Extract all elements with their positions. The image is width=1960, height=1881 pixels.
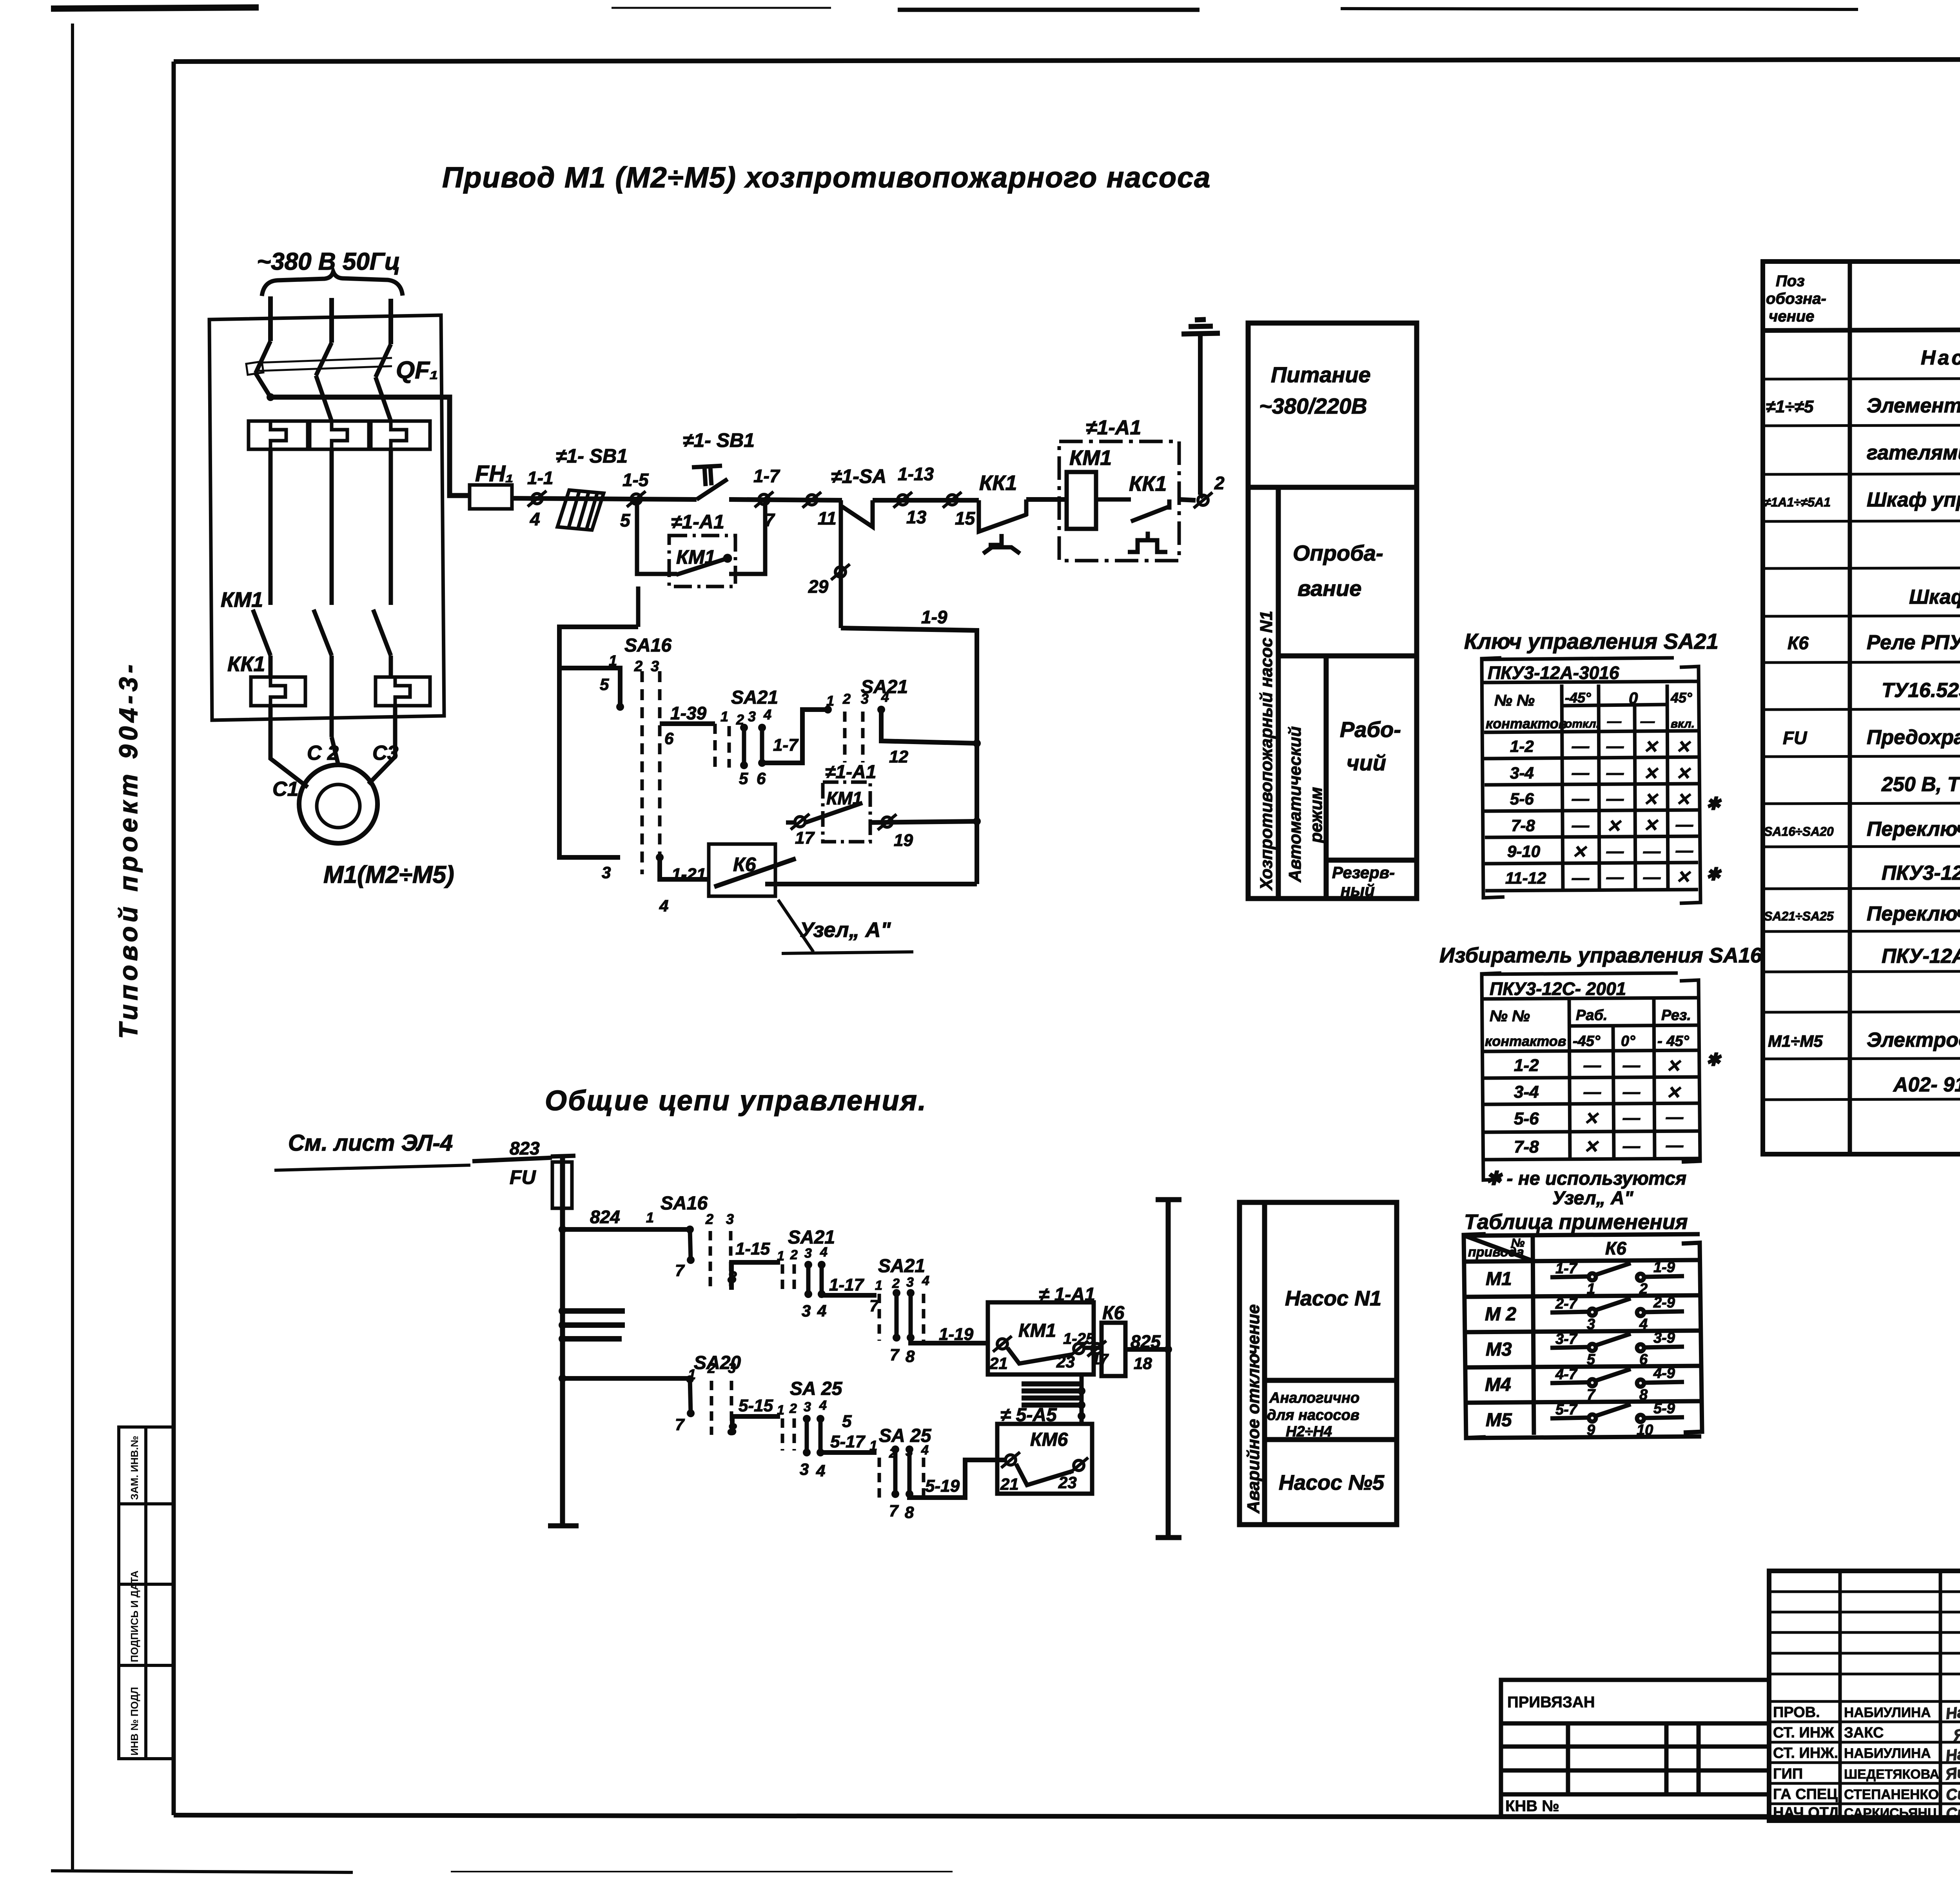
svg-text:—: — (1643, 842, 1661, 861)
svg-text:ЗАКС: ЗАКС (1844, 1725, 1884, 1741)
svg-text:5-19: 5-19 (925, 1476, 960, 1496)
svg-text:1-15: 1-15 (735, 1239, 770, 1258)
svg-text:2: 2 (842, 691, 851, 707)
svg-text:SА21: SА21 (788, 1227, 835, 1248)
svg-text:SА16÷SА20: SА16÷SА20 (1764, 824, 1834, 839)
svg-text:Рабо-: Рабо- (1340, 717, 1401, 742)
svg-text:—: — (1640, 713, 1655, 729)
svg-text:—: — (1606, 789, 1624, 808)
svg-text:4: 4 (659, 897, 668, 915)
svg-text:Ключ управления SА21: Ключ управления SА21 (1464, 629, 1719, 654)
thermal relay KK1 heater c (376, 677, 430, 706)
relay K6 contact row M2 (1550, 1298, 1684, 1316)
svg-text:контактов: контактов (1485, 1033, 1566, 1049)
svg-text:1-13: 1-13 (898, 464, 934, 484)
svg-text:М4: М4 (1485, 1374, 1511, 1395)
svg-text:7: 7 (675, 1415, 685, 1434)
svg-text:Опроба-: Опроба- (1293, 541, 1383, 565)
node 13 (893, 492, 912, 508)
svg-text:Избиратель управления SА16: Избиратель управления SА16 (1439, 944, 1762, 967)
svg-text:3: 3 (651, 658, 659, 675)
svg-text:для насосов: для насосов (1267, 1407, 1359, 1423)
svg-text:SА21÷SА25: SА21÷SА25 (1764, 909, 1834, 923)
svg-text:9-10: 9-10 (1507, 842, 1540, 861)
svg-text:Раб.: Раб. (1576, 1007, 1608, 1024)
svg-text:~380/220В: ~380/220В (1259, 394, 1367, 418)
svg-text:1-5: 1-5 (622, 470, 649, 490)
svg-text:SА16: SА16 (661, 1193, 708, 1214)
svg-text:2: 2 (707, 1360, 715, 1376)
svg-text:М5: М5 (1486, 1410, 1512, 1431)
breaker QF1 trip bar (246, 358, 392, 375)
svg-text:откл.: откл. (1565, 717, 1599, 730)
node 1-7 (755, 492, 773, 507)
svg-text:ТУ16.523.020 - 70; 83 ~220В: ТУ16.523.020 - 70; 83 ~220В (1882, 679, 1960, 702)
svg-text:—: — (1606, 763, 1624, 783)
drawing frame (174, 59, 1960, 62)
svg-text:✕: ✕ (1606, 817, 1622, 836)
svg-text:3: 3 (861, 691, 869, 707)
svg-text:—: — (1622, 1082, 1641, 1102)
breaker QF1 poles (256, 341, 391, 421)
svg-text:КК1: КК1 (227, 652, 265, 676)
node 29 (839, 500, 843, 628)
svg-text:3: 3 (602, 863, 611, 882)
svg-text:СТ. ИНЖ.: СТ. ИНЖ. (1773, 1745, 1838, 1761)
svg-text:Элементы управления электрод: Элементы управления электродви- (1867, 394, 1960, 417)
mode column lower (1240, 1202, 1397, 1525)
svg-text:К6: К6 (1102, 1303, 1125, 1324)
svg-text:0°: 0° (1621, 1033, 1635, 1049)
left margin vertical caption (114, 661, 143, 1039)
svg-text:К6: К6 (1788, 633, 1809, 653)
svg-text:✱: ✱ (1706, 1050, 1722, 1069)
svg-text:1-7: 1-7 (773, 735, 799, 755)
svg-text:ИНВ № ПОДЛ: ИНВ № ПОДЛ (129, 1687, 140, 1756)
svg-text:№ №: № № (1494, 692, 1535, 709)
svg-text:250 В, ТУ36. 1101- 71, 2А: 250 В, ТУ36. 1101- 71, 2А (1881, 773, 1960, 796)
svg-text:2: 2 (789, 1401, 797, 1416)
svg-text:чий: чий (1347, 750, 1386, 775)
svg-text:21: 21 (1000, 1475, 1019, 1493)
svg-text:1: 1 (609, 653, 617, 669)
svg-text:6: 6 (757, 769, 766, 788)
ground (1181, 320, 1220, 334)
svg-text:3-9: 3-9 (1653, 1330, 1675, 1346)
svg-text:8: 8 (905, 1503, 914, 1522)
svg-text:2: 2 (790, 1247, 798, 1262)
coil link inductor (1022, 1384, 1083, 1405)
svg-text:—: — (1675, 815, 1693, 834)
mode column upper (1248, 323, 1417, 899)
svg-text:—: — (1572, 737, 1590, 756)
svg-text:2: 2 (892, 1276, 900, 1291)
svg-text:ный: ный (1341, 881, 1375, 899)
svg-text:Сшь ;: Сшь ; (1945, 1802, 1960, 1823)
svg-text:✕: ✕ (1643, 816, 1659, 835)
breaker QF1 enclosure (209, 315, 444, 720)
svg-text:чение: чение (1769, 308, 1814, 325)
svg-text:КК1: КК1 (979, 471, 1017, 495)
wire coil to button (1096, 497, 1131, 502)
wire KM1 aux branch (637, 499, 765, 627)
svg-text:5-7: 5-7 (1555, 1402, 1578, 1418)
svg-text:✱: ✱ (1706, 794, 1722, 813)
svg-text:—: — (1607, 713, 1622, 729)
svg-text:—: — (1622, 1056, 1641, 1075)
svg-text:КМ1: КМ1 (1069, 446, 1112, 470)
svg-text:ГА СПЕЦ.: ГА СПЕЦ. (1773, 1786, 1842, 1803)
svg-text:✕: ✕ (1676, 790, 1691, 809)
svg-text:5-9: 5-9 (1653, 1400, 1675, 1417)
svg-text:FU: FU (1783, 728, 1808, 748)
node 15 (943, 492, 962, 508)
motor M1 (299, 765, 377, 843)
svg-text:Привод М1 (М2÷М5) хозпротивопо: Привод М1 (М2÷М5) хозпротивопожарного на… (442, 161, 1211, 194)
svg-text:-45°: -45° (1573, 1033, 1601, 1049)
svg-text:6: 6 (664, 729, 674, 748)
svg-text:4: 4 (763, 706, 771, 723)
svg-text:Электродвигатель ~380В, 75 кВт: Электродвигатель ~380В, 75 кВт (1867, 1029, 1960, 1051)
svg-text:2-7: 2-7 (1555, 1296, 1578, 1312)
svg-text:8: 8 (906, 1347, 915, 1365)
svg-text:1: 1 (777, 1403, 784, 1418)
svg-text:обозна-: обозна- (1766, 290, 1826, 307)
svg-text:12: 12 (889, 747, 908, 766)
svg-text:ПРИВЯЗАН: ПРИВЯЗАН (1507, 1694, 1595, 1711)
svg-text:5: 5 (600, 675, 609, 694)
svg-text:9: 9 (1587, 1422, 1595, 1438)
svg-text:5: 5 (620, 510, 631, 530)
svg-text:гателями М1÷М5: гателями М1÷М5 (1867, 441, 1960, 464)
svg-text:КМ1: КМ1 (1018, 1320, 1056, 1341)
svg-text:3-4: 3-4 (1510, 764, 1534, 782)
svg-text:вание: вание (1298, 576, 1361, 601)
svg-text:—: — (1572, 763, 1590, 783)
svg-text:SА16: SА16 (624, 635, 671, 656)
svg-text:Сшх: Сшх (1945, 1784, 1960, 1804)
svg-text:Резерв-: Резерв- (1332, 863, 1395, 882)
svg-text:Таблица применения: Таблица применения (1464, 1210, 1688, 1234)
svg-text:5-6: 5-6 (1510, 790, 1534, 808)
svg-text:✱ - не используются: ✱ - не используются (1486, 1168, 1686, 1189)
svg-text:1-17: 1-17 (829, 1275, 865, 1295)
svg-text:—: — (1666, 1108, 1684, 1127)
sheet edge scan lines (51, 7, 259, 9)
wire main control line (512, 498, 1067, 500)
svg-text:4: 4 (922, 1273, 929, 1288)
svg-text:—: — (1606, 737, 1624, 756)
node 11 (802, 492, 821, 508)
svg-text:SА 25: SА 25 (790, 1378, 843, 1399)
wire control bus left (548, 1156, 579, 1526)
svg-text:~380 В 50Гц: ~380 В 50Гц (257, 248, 400, 275)
svg-text:—: — (1622, 1137, 1641, 1156)
node 17 (791, 814, 809, 830)
svg-text:✕: ✕ (1666, 1057, 1681, 1076)
svg-text:—: — (1572, 789, 1590, 808)
svg-text:FU: FU (510, 1166, 537, 1188)
svg-text:≠1÷≠5: ≠1÷≠5 (1766, 397, 1814, 416)
attachment box (1501, 1680, 1769, 1816)
svg-text:2: 2 (1214, 473, 1225, 493)
svg-text:✕: ✕ (1584, 1137, 1599, 1157)
svg-text:7: 7 (1587, 1387, 1596, 1403)
wire phase drops (270, 449, 391, 605)
svg-text:4: 4 (816, 1462, 825, 1480)
svg-text:Общие цепи управления.: Общие цепи управления. (545, 1085, 927, 1117)
svg-text:5-17: 5-17 (830, 1432, 866, 1451)
svg-text:1: 1 (875, 1278, 882, 1293)
svg-text:Узел„ А": Узел„ А" (1552, 1188, 1634, 1209)
svg-text:1-2: 1-2 (1510, 737, 1534, 755)
svg-text:Узел„ А": Узел„ А" (800, 918, 891, 942)
svg-text:Реле РПУ-1. ТУ16.10.523. 251: Реле РПУ-1. ТУ16.10.523. 251- 70 (1867, 631, 1960, 654)
svg-text:2: 2 (705, 1211, 713, 1227)
parts list table (1763, 261, 1960, 1154)
svg-text:1-7: 1-7 (753, 466, 780, 486)
svg-text:≠1-А1: ≠1-А1 (825, 762, 876, 783)
thermal element KK1 a (249, 421, 308, 449)
node 2 (1194, 492, 1212, 508)
svg-text:3: 3 (804, 1246, 812, 1261)
wire control tap from phase (270, 397, 470, 496)
svg-text:ШЕДЕТЯКОВА: ШЕДЕТЯКОВА (1844, 1767, 1939, 1782)
svg-text:✕: ✕ (1643, 790, 1659, 809)
svg-text:✕: ✕ (1643, 737, 1659, 757)
svg-text:СТ. ИНЖ: СТ. ИНЖ (1773, 1725, 1834, 1741)
svg-text:ПОДПИСЬ И ДАТА: ПОДПИСЬ И ДАТА (129, 1571, 140, 1662)
svg-text:Насос №5: Насос №5 (1279, 1471, 1385, 1494)
svg-text:КМ1: КМ1 (221, 588, 263, 612)
svg-text:3-4: 3-4 (1514, 1082, 1539, 1102)
svg-text:4: 4 (921, 1443, 929, 1458)
svg-text:2-9: 2-9 (1653, 1295, 1675, 1311)
svg-text:18: 18 (1134, 1354, 1152, 1373)
svg-text:1: 1 (720, 708, 728, 724)
svg-text:М1(М2÷М5): М1(М2÷М5) (323, 861, 454, 888)
svg-text:Шкаф управления ШУ5102-33В 2: Шкаф управления ШУ5102-33В 2Б (1867, 488, 1960, 511)
svg-text:№ №: № № (1490, 1008, 1530, 1025)
svg-text:✕: ✕ (1676, 764, 1691, 783)
svg-text:Предохранитель трубчатый ПТ1: Предохранитель трубчатый ПТ10А ; (1867, 726, 1960, 749)
wire lower branch (563, 1376, 690, 1381)
svg-text:—: — (1643, 868, 1661, 887)
svg-text:✕: ✕ (1666, 1083, 1681, 1102)
svg-text:контактов: контактов (1486, 715, 1567, 732)
svg-text:ЗАМ. ИНВ.№: ЗАМ. ИНВ.№ (129, 1436, 140, 1500)
svg-text:№: № (1511, 1236, 1524, 1249)
svg-text:—: — (1606, 868, 1624, 887)
svg-text:1: 1 (777, 1249, 784, 1264)
svg-text:—: — (1666, 1136, 1684, 1155)
svg-text:3: 3 (748, 708, 756, 724)
node 19 (870, 821, 977, 822)
svg-text:1-1: 1-1 (527, 468, 553, 488)
svg-text:4: 4 (820, 1245, 828, 1260)
svg-text:3: 3 (906, 1275, 914, 1290)
svg-text:823: 823 (510, 1138, 540, 1158)
wire control bus right (1156, 1200, 1181, 1538)
svg-text:15: 15 (955, 508, 976, 528)
svg-text:—: — (1572, 868, 1590, 888)
svg-text:КМ6: КМ6 (1030, 1429, 1068, 1450)
svg-text:✕: ✕ (1584, 1109, 1599, 1128)
svg-text:17: 17 (795, 828, 815, 848)
brace under supply label (262, 272, 403, 296)
svg-text:≠1А1÷≠5А1: ≠1А1÷≠5А1 (1764, 495, 1831, 509)
svg-text:См. лист ЭЛ-4: См. лист ЭЛ-4 (288, 1130, 453, 1156)
svg-text:7-8: 7-8 (1511, 816, 1535, 835)
svg-text:21: 21 (989, 1354, 1008, 1373)
svg-text:7: 7 (890, 1345, 900, 1364)
thermal element KK1 c (371, 421, 430, 449)
svg-text:Переключатель универсальный: Переключатель универсальный (1867, 902, 1960, 925)
signatures (1944, 1699, 1960, 1823)
svg-text:3: 3 (804, 1400, 811, 1414)
svg-text:✕: ✕ (1572, 842, 1587, 862)
svg-text:19: 19 (894, 831, 913, 850)
svg-text:1-39: 1-39 (670, 703, 706, 723)
relay K6 contact row M5 (1550, 1404, 1684, 1422)
wire bracket SA16 (559, 627, 638, 857)
svg-text:- 45°: - 45° (1657, 1033, 1689, 1049)
svg-text:≠1-А1: ≠1-А1 (671, 511, 724, 533)
svg-text:3: 3 (800, 1460, 809, 1478)
svg-text:✕: ✕ (1676, 737, 1691, 757)
svg-text:ПКУ-12А-3016 МРТУ16-526.047-: ПКУ-12А-3016 МРТУ16-526.047- 67 (1882, 945, 1960, 968)
svg-text:3: 3 (726, 1211, 734, 1227)
thermal element KK1 b (310, 421, 369, 449)
svg-text:1-2: 1-2 (1514, 1056, 1539, 1075)
svg-text:-45°: -45° (1565, 690, 1591, 706)
svg-text:4: 4 (530, 509, 540, 529)
svg-text:Н2÷Н4: Н2÷Н4 (1286, 1423, 1332, 1440)
svg-text:4: 4 (817, 1302, 826, 1320)
relay K6 contact row M1 (1550, 1263, 1684, 1281)
svg-text:Автоматический: Автоматический (1285, 726, 1305, 882)
svg-text:1-7: 1-7 (1555, 1260, 1578, 1277)
svg-text:3: 3 (728, 1360, 736, 1376)
svg-text:НАБИУЛИНА: НАБИУЛИНА (1844, 1746, 1931, 1761)
relay K6 contact row M4 (1550, 1369, 1684, 1387)
svg-text:✱: ✱ (1706, 865, 1722, 884)
svg-text:С 2: С 2 (307, 742, 339, 764)
svg-text:Питание: Питание (1271, 362, 1371, 387)
wire phase stubs (270, 296, 391, 344)
svg-text:Поз: Поз (1776, 272, 1805, 290)
svg-text:1: 1 (646, 1209, 654, 1226)
svg-text:КНВ №: КНВ № (1505, 1797, 1559, 1815)
svg-text:вкл.: вкл. (1671, 717, 1695, 730)
svg-text:11-12: 11-12 (1505, 869, 1546, 887)
svg-text:SА21: SА21 (731, 687, 778, 708)
svg-text:Типовой проект 904-3-: Типовой проект 904-3- (114, 661, 143, 1039)
svg-text:7: 7 (889, 1502, 899, 1520)
svg-text:FH₁: FH₁ (475, 461, 514, 487)
svg-text:3: 3 (1587, 1316, 1595, 1333)
svg-text:3: 3 (802, 1302, 811, 1320)
svg-text:ПКУ3-12С- 2001: ПКУ3-12С- 2001 (1490, 979, 1626, 999)
svg-text:1: 1 (1587, 1281, 1595, 1297)
svg-text:1-9: 1-9 (921, 607, 947, 627)
svg-text:А02- 91- 4: А02- 91- 4 (1893, 1073, 1960, 1096)
svg-text:≠1- SB1: ≠1- SB1 (683, 429, 755, 451)
svg-text:11: 11 (818, 508, 837, 528)
svg-text:Рез.: Рез. (1661, 1007, 1691, 1024)
svg-text:КК1: КК1 (1129, 472, 1167, 496)
svg-text:1-9: 1-9 (1653, 1259, 1675, 1276)
svg-text:3-7: 3-7 (1555, 1331, 1578, 1347)
svg-text:7-8: 7-8 (1514, 1137, 1539, 1157)
svg-text:Насосная станция: Насосная станция (1921, 347, 1960, 369)
left margin mini table (119, 1427, 174, 1759)
svg-text:—: — (1572, 816, 1590, 835)
svg-text:—: — (1675, 841, 1693, 860)
svg-text:режим: режим (1307, 787, 1326, 843)
svg-text:ПРОВ.: ПРОВ. (1773, 1704, 1820, 1721)
svg-text:SА21: SА21 (878, 1256, 925, 1276)
svg-text:САРКИСЬЯНЦ: САРКИСЬЯНЦ (1844, 1806, 1937, 1821)
svg-text:5: 5 (1587, 1351, 1595, 1368)
svg-text:6: 6 (1639, 1351, 1648, 1368)
svg-text:5-6: 5-6 (1514, 1109, 1539, 1128)
svg-text:4: 4 (819, 1398, 827, 1413)
svg-text:М1÷М5: М1÷М5 (1768, 1032, 1823, 1050)
svg-text:—: — (1622, 1108, 1641, 1128)
svg-text:СТЕПАНЕНКО: СТЕПАНЕНКО (1844, 1787, 1939, 1802)
svg-text:4-9: 4-9 (1653, 1365, 1675, 1382)
relay K6 contact row M3 (1550, 1334, 1684, 1351)
svg-text:45°: 45° (1670, 690, 1692, 706)
svg-text:5: 5 (739, 769, 748, 788)
svg-text:Аналогично: Аналогично (1269, 1390, 1359, 1406)
svg-text:С1: С1 (272, 778, 298, 801)
svg-text:QF₁: QF₁ (396, 357, 438, 384)
svg-text:0: 0 (1629, 689, 1638, 707)
svg-text:—: — (1583, 1056, 1601, 1075)
svg-text:М 2: М 2 (1485, 1304, 1516, 1325)
svg-text:10: 10 (1637, 1422, 1653, 1438)
svg-text:М3: М3 (1486, 1339, 1512, 1360)
svg-text:4-7: 4-7 (1555, 1366, 1578, 1383)
svg-text:2: 2 (1639, 1281, 1648, 1297)
svg-text:≠1-А1: ≠1-А1 (1086, 416, 1141, 439)
svg-text:5: 5 (842, 1412, 852, 1431)
wire to motor (270, 706, 395, 787)
svg-text:НАБИУЛИНА: НАБИУЛИНА (1844, 1705, 1931, 1720)
svg-text:8: 8 (1639, 1387, 1648, 1403)
node 1-5 (627, 491, 646, 507)
svg-text:13: 13 (906, 507, 927, 527)
svg-text:5-15: 5-15 (739, 1396, 773, 1415)
svg-text:—: — (1606, 842, 1624, 861)
svg-text:—: — (1583, 1082, 1601, 1102)
svg-text:824: 824 (590, 1207, 620, 1227)
svg-text:✕: ✕ (1643, 764, 1659, 783)
svg-text:29: 29 (808, 576, 829, 597)
svg-text:≠1-SA: ≠1-SA (831, 465, 886, 487)
svg-text:Аварийное отключение: Аварийное отключение (1244, 1304, 1263, 1514)
wire to earth (1198, 332, 1203, 495)
svg-text:С3: С3 (372, 742, 399, 764)
svg-text:К6: К6 (1605, 1238, 1626, 1258)
svg-text:≠1- SB1: ≠1- SB1 (556, 445, 628, 467)
title block (1769, 1571, 1960, 1821)
svg-text:4: 4 (1639, 1316, 1648, 1333)
svg-text:М1: М1 (1486, 1269, 1512, 1289)
svg-text:✕: ✕ (1676, 868, 1691, 887)
